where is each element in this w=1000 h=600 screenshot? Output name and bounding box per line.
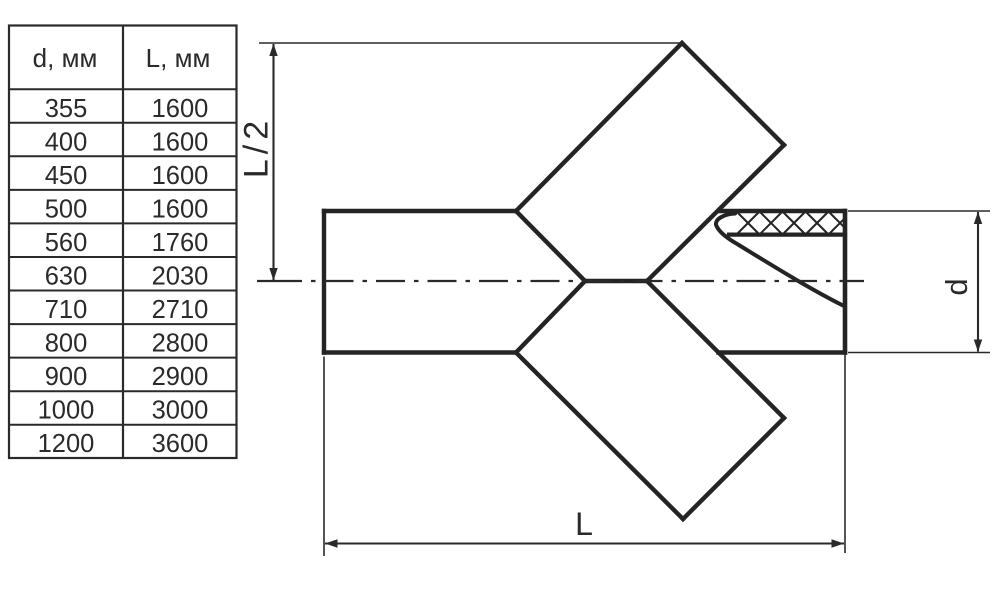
seam junction to lower branch corner xyxy=(647,281,784,418)
svg-text:560: 560 xyxy=(45,229,88,257)
arrow d top xyxy=(974,212,982,224)
svg-text:d: d xyxy=(939,278,974,295)
svg-text:2900: 2900 xyxy=(152,363,209,391)
arrow L left xyxy=(325,539,338,547)
table column d values xyxy=(38,95,95,458)
svg-text:1600: 1600 xyxy=(152,129,209,157)
dimension table outer border xyxy=(9,26,237,459)
centerline axis solid start xyxy=(257,280,302,282)
svg-text:2030: 2030 xyxy=(152,263,209,291)
svg-text:710: 710 xyxy=(45,296,88,324)
dimension line d xyxy=(977,212,979,352)
svg-text:L, мм: L, мм xyxy=(146,43,211,73)
arrow L/2 bottom xyxy=(269,268,277,281)
seam junction to upper branch corner xyxy=(647,145,784,281)
right pipe section bottom edge xyxy=(719,350,846,354)
svg-text:d, мм: d, мм xyxy=(33,43,98,73)
table column L values xyxy=(152,95,209,458)
right pipe section right edge xyxy=(843,211,848,353)
main pipe left section outline xyxy=(324,211,516,353)
insulation cross hatch xyxy=(735,210,853,236)
svg-text:1600: 1600 xyxy=(152,95,209,123)
d extension line bottom xyxy=(848,352,990,354)
svg-text:1200: 1200 xyxy=(38,430,95,458)
arrow L/2 top xyxy=(269,44,277,56)
top extension line xyxy=(259,42,684,44)
lower branch outline xyxy=(516,353,784,520)
arrow L right xyxy=(832,539,845,547)
svg-text:1000: 1000 xyxy=(38,397,95,425)
table header labels xyxy=(33,43,211,73)
dimension line L/2 xyxy=(272,44,274,280)
valley seam lower xyxy=(516,281,585,353)
arrow d bottom xyxy=(974,340,982,352)
svg-text:900: 900 xyxy=(45,363,88,391)
svg-text:L: L xyxy=(575,506,593,542)
svg-text:2800: 2800 xyxy=(152,330,209,358)
insulation band white fill xyxy=(716,209,845,238)
svg-text:450: 450 xyxy=(45,162,88,190)
valley seam upper xyxy=(516,211,585,281)
svg-text:2710: 2710 xyxy=(152,296,209,324)
table column divider xyxy=(122,26,124,459)
L extension line left xyxy=(323,357,325,557)
right pipe section top edge xyxy=(720,209,845,213)
L extension line right xyxy=(844,355,846,554)
d extension line top xyxy=(848,210,990,212)
svg-text:355: 355 xyxy=(45,95,88,123)
svg-text:3000: 3000 xyxy=(152,397,209,425)
svg-text:1600: 1600 xyxy=(152,162,209,190)
table row lines xyxy=(9,89,237,425)
svg-text:1760: 1760 xyxy=(152,229,209,257)
svg-text:1600: 1600 xyxy=(152,196,209,224)
center seam segment xyxy=(585,279,647,283)
insulation band bottom edge xyxy=(729,233,845,237)
svg-text:400: 400 xyxy=(45,129,88,157)
svg-text:L/2: L/2 xyxy=(238,116,276,178)
svg-text:630: 630 xyxy=(45,263,88,291)
svg-text:800: 800 xyxy=(45,330,88,358)
svg-text:500: 500 xyxy=(45,196,88,224)
centerline axis dash-dot xyxy=(311,280,864,282)
fabric cut sweep curve xyxy=(716,214,843,306)
upper branch outline xyxy=(516,43,784,211)
dimension line L xyxy=(325,542,844,544)
svg-text:3600: 3600 xyxy=(152,430,209,458)
